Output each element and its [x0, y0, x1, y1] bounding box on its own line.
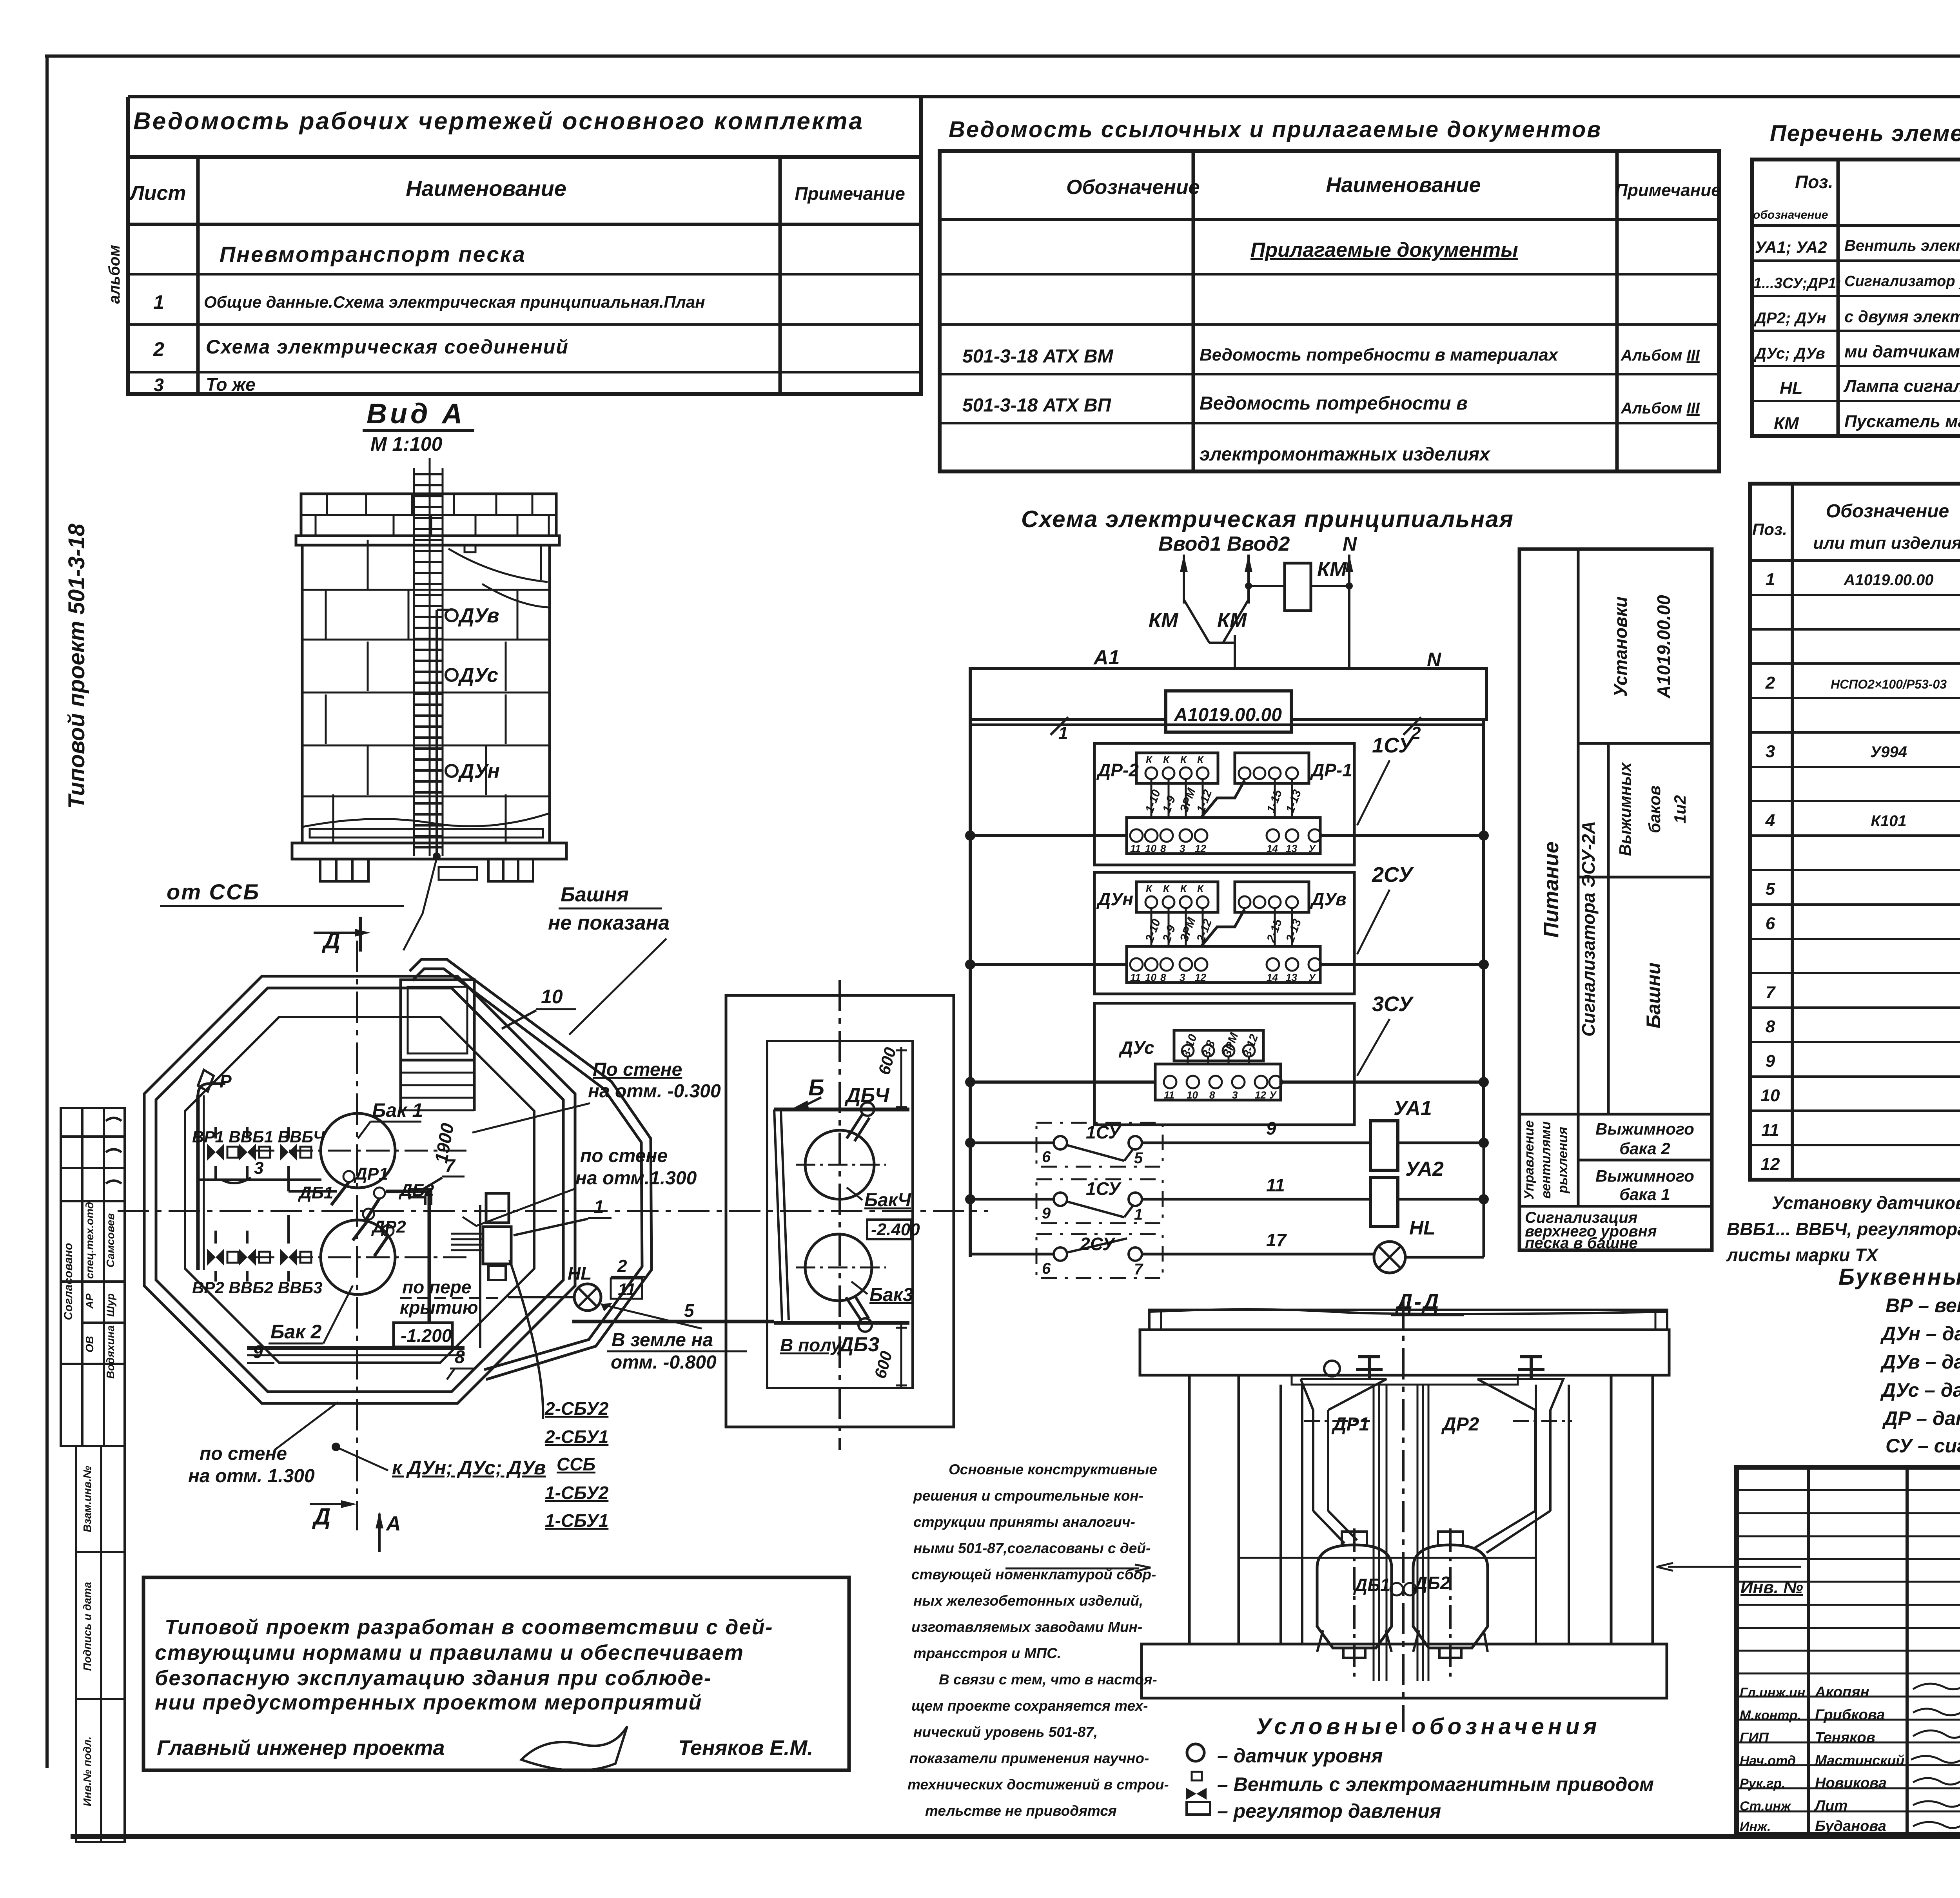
- svg-text:– Вентиль с электромагнитным: – Вентиль с электромагнитным приводом: [1217, 1773, 1654, 1795]
- svg-text:Установки: Установки: [1610, 596, 1631, 697]
- svg-text:ДУс: ДУс: [1118, 1037, 1154, 1058]
- svg-text:В полу: В полу: [780, 1335, 842, 1355]
- left construction notes paragraph: [907, 1461, 1169, 1819]
- Вид А title: [363, 398, 474, 455]
- svg-text:3: 3: [1232, 1089, 1238, 1101]
- svg-text:Башня: Башня: [561, 883, 629, 906]
- svg-text:2: 2: [1765, 673, 1775, 692]
- svg-text:11: 11: [1164, 1089, 1174, 1101]
- svg-text:с двумя электронными блоками с: с двумя электронными блоками с емкостны-: [1844, 307, 1960, 326]
- svg-text:ДБЧ: ДБЧ: [844, 1084, 890, 1107]
- svg-text:Альбом III: Альбом III: [1621, 347, 1700, 364]
- svg-text:5: 5: [684, 1300, 695, 1321]
- svg-text:10: 10: [1145, 972, 1156, 983]
- svg-text:12: 12: [1195, 972, 1206, 983]
- svg-text:ВР – вентиль рыхления: ВР – вентиль рыхления: [1886, 1294, 1960, 1316]
- svg-text:Установку датчиков ДУН; ДУв; Д: Установку датчиков ДУН; ДУв; ДУс см. лис…: [1772, 1193, 1960, 1213]
- wire number labels inside СУ blocks: [1143, 786, 1304, 1059]
- svg-text:Выжимных: Выжимных: [1616, 762, 1634, 856]
- svg-text:альбом: альбом: [106, 245, 123, 304]
- svg-text:3: 3: [1180, 843, 1185, 854]
- svg-text:Схема электрическая соединен: Схема электрическая соединений: [206, 336, 569, 358]
- svg-text:А1019.00.00: А1019.00.00: [1174, 705, 1282, 725]
- svg-text:по стене: по стене: [580, 1146, 668, 1166]
- svg-text:УА1; УА2: УА1; УА2: [1755, 238, 1827, 256]
- svg-text:Сигнализатора ЭСУ-2А: Сигнализатора ЭСУ-2А: [1578, 821, 1599, 1037]
- svg-text:ГИП: ГИП: [1740, 1729, 1769, 1746]
- svg-text:ных железобетонных изделий,: ных железобетонных изделий,: [913, 1593, 1143, 1609]
- main schematic enclosure: [970, 717, 1484, 1257]
- svg-text:2: 2: [617, 1256, 627, 1276]
- svg-text:НСПО2×100/Р53-03: НСПО2×100/Р53-03: [1831, 677, 1947, 691]
- svg-text:17: 17: [1266, 1230, 1287, 1250]
- svg-text:спец.тех.отд: спец.тех.отд: [83, 1202, 96, 1279]
- svg-text:тельстве не приводятся: тельстве не приводятся: [925, 1803, 1117, 1819]
- svg-text:вентилями: вентилями: [1539, 1121, 1553, 1198]
- svg-text:изготавляемых заводами Мин-: изготавляемых заводами Мин-: [911, 1619, 1142, 1635]
- svg-text:9: 9: [1766, 1051, 1775, 1071]
- svg-text:Мастинский: Мастинский: [1815, 1752, 1904, 1768]
- svg-text:– датчик уровня: – датчик уровня: [1217, 1745, 1383, 1767]
- svg-text:ДБ2: ДБ2: [398, 1181, 434, 1200]
- svg-text:СУ – сигнализатор уровня: СУ – сигнализатор уровня: [1886, 1435, 1960, 1457]
- svg-text:8: 8: [455, 1347, 465, 1367]
- svg-text:У: У: [1308, 843, 1316, 854]
- device А1019.00.00: [1166, 691, 1291, 732]
- svg-text:Лист: Лист: [129, 182, 186, 205]
- section Д-Д: [1391, 1289, 1464, 1315]
- svg-text:Бак3: Бак3: [869, 1285, 913, 1305]
- svg-text:ДР2: ДР2: [1441, 1414, 1479, 1435]
- svg-text:ствующими нормами и правилам: ствующими нормами и правилами и обеспечи…: [155, 1641, 744, 1664]
- svg-text:по пере: по пере: [402, 1277, 471, 1297]
- svg-text:ДУс; ДУв: ДУс; ДУв: [1754, 345, 1825, 362]
- svg-text:КМ: КМ: [1149, 609, 1179, 632]
- svg-text:ными 501-87,согласованы с дей-: ными 501-87,согласованы с дей-: [913, 1540, 1151, 1556]
- svg-text:1СУ: 1СУ: [1372, 734, 1414, 757]
- svg-text:1СУ: 1СУ: [1086, 1178, 1122, 1199]
- svg-text:12: 12: [1761, 1155, 1780, 1174]
- svg-text:Ст.инж: Ст.инж: [1740, 1799, 1791, 1814]
- svg-text:БакЧ: БакЧ: [864, 1190, 911, 1211]
- svg-text:Теняков Е.М.: Теняков Е.М.: [678, 1736, 813, 1760]
- switch contact 1СУ (6-5) and solenoid valve УА1, wire 9: [965, 1097, 1489, 1170]
- svg-text:У: У: [1308, 972, 1316, 983]
- svg-text:1: 1: [153, 291, 164, 313]
- svg-text:Поз.: Поз.: [1795, 172, 1833, 192]
- svg-text:10: 10: [1145, 843, 1156, 854]
- svg-text:АР: АР: [83, 1293, 96, 1309]
- svg-text:8: 8: [1160, 843, 1166, 854]
- к ДУн; ДУс; ДУв: [332, 1443, 340, 1451]
- svg-text:Выжимного: Выжимного: [1595, 1120, 1694, 1138]
- svg-text:Вентиль электропневматический: Вентиль электропневматический 5кч888р СВ…: [1844, 237, 1960, 254]
- svg-text:А1019.00.00: А1019.00.00: [1653, 595, 1674, 699]
- svg-text:ДУн: ДУн: [458, 760, 500, 783]
- svg-text:на отм. -0.300: на отм. -0.300: [588, 1081, 721, 1102]
- svg-text:бака 2: бака 2: [1619, 1139, 1670, 1158]
- svg-text:Ввод1 Ввод2: Ввод1 Ввод2: [1158, 533, 1290, 555]
- svg-text:1-СБУ1: 1-СБУ1: [545, 1510, 608, 1531]
- svg-text:Ведомость потребности в матери: Ведомость потребности в материалах: [1200, 345, 1559, 364]
- svg-text:технических достижений в строи: технических достижений в строи-: [907, 1777, 1169, 1793]
- svg-text:1: 1: [1766, 570, 1775, 589]
- svg-text:ВВБ1... ВВБЧ, регулятора давле: ВВБ1... ВВБЧ, регулятора давления Р, дат…: [1727, 1219, 1960, 1239]
- svg-text:ВР1 ВВБ1 ВВБЧ: ВР1 ВВБ1 ВВБЧ: [192, 1128, 325, 1146]
- svg-text:М 1:100: М 1:100: [370, 433, 443, 455]
- svg-text:струкции приняты аналогич-: струкции приняты аналогич-: [913, 1514, 1135, 1530]
- svg-text:Альбом III: Альбом III: [1621, 400, 1700, 417]
- svg-text:ми датчиками ДЕ-3П: ми датчиками ДЕ-3П: [1844, 342, 1960, 361]
- section mark Д (top): [314, 917, 370, 954]
- svg-text:ствующей номенклатурой сбор-: ствующей номенклатурой сбор-: [911, 1566, 1156, 1583]
- svg-text:или тип изделия: или тип изделия: [1813, 533, 1960, 553]
- svg-text:Лит: Лит: [1814, 1798, 1847, 1814]
- switch contact 1СУ (9-1) and solenoid valve УА2, wire 11: [965, 1158, 1489, 1227]
- svg-text:УА2: УА2: [1405, 1158, 1444, 1180]
- left margin vertical text: [62, 245, 123, 1320]
- svg-text:HL: HL: [1409, 1217, 1436, 1239]
- svg-text:2-СБУ2: 2-СБУ2: [544, 1398, 609, 1419]
- wire: input feeders: [1180, 555, 1353, 604]
- svg-text:ДР-1: ДР-1: [1310, 760, 1352, 780]
- svg-text:9: 9: [253, 1341, 263, 1362]
- svg-text:11: 11: [1130, 972, 1141, 983]
- svg-text:Д: Д: [321, 927, 340, 954]
- svg-text:Условные обозначения: Условные обозначения: [1256, 1714, 1601, 1739]
- svg-text:Ведомость ссылочных и прила: Ведомость ссылочных и прилагаемые докуме…: [949, 117, 1602, 142]
- svg-text:1и2: 1и2: [1671, 795, 1689, 823]
- svg-text:8: 8: [1209, 1089, 1215, 1101]
- list: Буквенные позиционные обозначения: [1838, 1264, 1960, 1457]
- svg-text:ДБ1: ДБ1: [298, 1183, 333, 1202]
- svg-text:ДР2; ДУн: ДР2; ДУн: [1754, 310, 1826, 327]
- svg-text:Сигнализатор уровня электронны: Сигнализатор уровня электронный типа ЭСУ…: [1844, 273, 1960, 290]
- svg-text:Ведомость рабочих чертежей: Ведомость рабочих чертежей основного ком…: [133, 108, 864, 135]
- svg-text:Управление: Управление: [1522, 1120, 1537, 1200]
- svg-text:баков: баков: [1645, 785, 1664, 833]
- svg-text:Поз.: Поз.: [1752, 520, 1787, 538]
- svg-text:ДР1: ДР1: [1331, 1414, 1369, 1435]
- svg-text:ДБ3: ДБ3: [837, 1333, 879, 1356]
- svg-text:Примечание: Примечание: [1615, 181, 1720, 200]
- svg-text:3: 3: [1766, 742, 1775, 761]
- svg-text:Буквенные позиционные обозна: Буквенные позиционные обозначения: [1838, 1264, 1960, 1290]
- svg-text:рыхления: рыхления: [1555, 1127, 1570, 1194]
- svg-text:на отм.1.300: на отм.1.300: [575, 1168, 697, 1189]
- svg-text:ССБ: ССБ: [557, 1454, 595, 1474]
- svg-text:Общие данные.Схема электрическ: Общие данные.Схема электрическая принцип…: [204, 293, 705, 311]
- svg-text:Бак 1: Бак 1: [372, 1099, 423, 1121]
- svg-text:1СУ: 1СУ: [1086, 1122, 1122, 1142]
- svg-text:501-3-18 АТХ ВП: 501-3-18 АТХ ВП: [962, 395, 1112, 416]
- svg-text:Нач.отд: Нач.отд: [1740, 1753, 1796, 1768]
- svg-text:13: 13: [1286, 843, 1297, 854]
- svg-text:Б: Б: [808, 1075, 824, 1100]
- svg-text:по стене: по стене: [200, 1443, 287, 1464]
- svg-text:КМ: КМ: [1317, 558, 1347, 581]
- svg-text:щем проекте сохраняется тех-: щем проекте сохраняется тех-: [911, 1698, 1148, 1714]
- svg-text:Пускатель магнитный типа ПМЕ-1: Пускатель магнитный типа ПМЕ-121: [1844, 412, 1960, 431]
- svg-text:3СУ: 3СУ: [1372, 992, 1414, 1016]
- bottom left note box: [143, 1577, 849, 1771]
- svg-text:– регулятор давления: – регулятор давления: [1217, 1800, 1441, 1822]
- svg-text:6: 6: [1042, 1260, 1051, 1277]
- svg-text:ДУс: ДУс: [458, 664, 498, 687]
- svg-text:2СУ: 2СУ: [1080, 1234, 1116, 1254]
- svg-text:К: К: [1146, 754, 1153, 765]
- svg-text:10: 10: [1761, 1086, 1780, 1105]
- svg-text:ДР-2: ДР-2: [1096, 760, 1139, 780]
- svg-text:11: 11: [1761, 1120, 1779, 1140]
- svg-text:В земле на: В земле на: [612, 1330, 713, 1351]
- svg-text:А1: А1: [1093, 646, 1120, 669]
- functional destination table: [1519, 549, 1712, 1252]
- svg-text:Новикова: Новикова: [1815, 1775, 1887, 1791]
- svg-text:Инж.: Инж.: [1740, 1819, 1771, 1834]
- left margin stamp table: [61, 1108, 125, 1842]
- svg-text:трансстроя и МПС.: трансстроя и МПС.: [913, 1645, 1061, 1661]
- svg-text:N: N: [1343, 533, 1357, 555]
- svg-text:нии предусмотренных проектом: нии предусмотренных проектом мероприятий: [155, 1691, 702, 1714]
- svg-text:Рук.гр.: Рук.гр.: [1740, 1776, 1786, 1791]
- svg-text:Основные конструктивные: Основные конструктивные: [949, 1461, 1157, 1477]
- svg-text:5: 5: [1134, 1149, 1143, 1167]
- plan labels: [184, 986, 747, 1552]
- svg-text:Гл.инж.ин: Гл.инж.ин: [1740, 1685, 1805, 1700]
- contactor KM main contacts: [1149, 555, 1285, 669]
- svg-text:крытию: крытию: [400, 1297, 478, 1318]
- svg-text:ДР1: ДР1: [353, 1164, 388, 1184]
- svg-text:12: 12: [1195, 843, 1206, 854]
- svg-text:2: 2: [153, 338, 164, 360]
- tower elevation Вид А: [292, 458, 566, 950]
- svg-text:Выжимного: Выжимного: [1595, 1167, 1694, 1185]
- table: Ведомость рабочих чертежей основного комплекта: [128, 97, 921, 395]
- svg-text:ДУв: ДУв: [458, 604, 499, 627]
- svg-text:-1.200: -1.200: [401, 1325, 452, 1346]
- svg-text:М.контр.: М.контр.: [1740, 1708, 1801, 1723]
- table: Ведомость ссылочных и прилагаемых документов: [940, 117, 1721, 471]
- svg-text:на отм. 1.300: на отм. 1.300: [188, 1466, 315, 1486]
- tank ДБ1: [1317, 1545, 1392, 1648]
- svg-text:12: 12: [1255, 1089, 1266, 1101]
- signal unit block 3СУ with ДУс: [965, 992, 1489, 1125]
- svg-text:ДУн: ДУн: [1096, 889, 1133, 909]
- svg-text:Водяхина: Водяхина: [104, 1325, 116, 1379]
- svg-text:Самсовев: Самсовев: [104, 1213, 116, 1268]
- svg-text:отм. -0.800: отм. -0.800: [611, 1352, 717, 1373]
- svg-text:ДУс – датчик уровня среднего: ДУс – датчик уровня среднего: [1880, 1379, 1960, 1401]
- svg-text:Схема электрическая принципи: Схема электрическая принципиальная: [1021, 506, 1514, 532]
- svg-text:3: 3: [154, 375, 164, 395]
- svg-text:8: 8: [1160, 972, 1166, 983]
- svg-text:10: 10: [1187, 1089, 1198, 1101]
- svg-text:Перечень элементов принципиаль: Перечень элементов принципиальной схемы: [1770, 121, 1960, 146]
- svg-text:Башни: Башни: [1642, 963, 1664, 1028]
- svg-text:1...3СУ;ДР1;: 1...3СУ;ДР1;: [1753, 275, 1841, 292]
- svg-text:ДР – датчик рыхления: ДР – датчик рыхления: [1882, 1407, 1960, 1429]
- signal unit block 2СУ with ДУн ДУв: [965, 863, 1489, 994]
- svg-text:А: А: [385, 1512, 401, 1535]
- svg-text:от ССБ: от ССБ: [167, 879, 260, 904]
- svg-text:4: 4: [1765, 811, 1775, 830]
- svg-text:10: 10: [541, 986, 563, 1008]
- svg-text:Буданова: Буданова: [1815, 1818, 1886, 1835]
- svg-text:Типовой проект 501-3-18: Типовой проект 501-3-18: [64, 523, 89, 809]
- svg-text:К: К: [1180, 754, 1187, 765]
- svg-text:1: 1: [594, 1196, 604, 1217]
- svg-text:2СУ: 2СУ: [1372, 863, 1414, 886]
- note: sensor installation reference: [1726, 1193, 1960, 1265]
- svg-text:Теняков: Теняков: [1815, 1729, 1875, 1746]
- svg-text:А1019.00.00: А1019.00.00: [1843, 571, 1933, 589]
- svg-text:1-СБУ2: 1-СБУ2: [545, 1483, 609, 1503]
- title block: [1737, 1467, 1960, 1834]
- svg-text:13: 13: [1286, 972, 1297, 983]
- svg-text:К: К: [1180, 883, 1187, 894]
- svg-text:ОВ: ОВ: [83, 1336, 96, 1352]
- svg-text:7: 7: [1134, 1261, 1143, 1278]
- svg-text:Главный инженер проекта: Главный инженер проекта: [157, 1736, 445, 1760]
- svg-text:501-3-18 АТХ ВМ: 501-3-18 АТХ ВМ: [962, 346, 1114, 367]
- svg-text:Прилагаемые документы: Прилагаемые документы: [1250, 239, 1518, 261]
- table: Перечень элементов принципиальной схемы: [1752, 121, 1960, 436]
- svg-text:Наименование: Наименование: [1326, 173, 1481, 197]
- svg-text:Вид А: Вид А: [367, 398, 465, 430]
- title block signature rows: [1740, 1683, 1960, 1835]
- svg-text:В связи с тем, что в настоя-: В связи с тем, что в настоя-: [939, 1671, 1157, 1688]
- svg-text:не показана: не показана: [548, 912, 670, 934]
- svg-text:Подпись и дата: Подпись и дата: [81, 1582, 93, 1671]
- svg-text:То же: То же: [206, 374, 256, 395]
- svg-text:9: 9: [1266, 1118, 1276, 1138]
- svg-text:6: 6: [1042, 1148, 1051, 1166]
- label: Башня не показана: [548, 883, 670, 1035]
- svg-text:ДУн – датчик уровня нижнего: ДУн – датчик уровня нижнего: [1880, 1323, 1960, 1345]
- svg-text:ДБ1: ДБ1: [1353, 1575, 1390, 1595]
- svg-text:14: 14: [1267, 972, 1278, 983]
- svg-text:ДР2: ДР2: [371, 1217, 406, 1236]
- svg-text:ВР2 ВВБ2 ВВБ3: ВР2 ВВБ2 ВВБ3: [192, 1278, 323, 1297]
- svg-text:показатели применения научно-: показатели применения научно-: [909, 1750, 1149, 1766]
- svg-text:листы марки ТХ: листы марки ТХ: [1726, 1245, 1879, 1265]
- svg-text:Шур: Шур: [104, 1293, 116, 1317]
- svg-text:6: 6: [1766, 914, 1775, 933]
- svg-text:У: У: [1269, 1089, 1277, 1101]
- svg-text:К: К: [1197, 754, 1204, 765]
- switch contact 2СУ (6-7) and signal lamp HL, wire 17: [970, 1143, 1484, 1278]
- svg-text:HL: HL: [568, 1263, 592, 1283]
- svg-text:2-СБУ1: 2-СБУ1: [544, 1427, 608, 1447]
- svg-text:7: 7: [445, 1155, 456, 1176]
- svg-text:5: 5: [1766, 879, 1775, 899]
- svg-text:3: 3: [254, 1158, 263, 1178]
- svg-text:К: К: [1163, 754, 1170, 765]
- svg-text:Ведомость потребности в: Ведомость потребности в: [1200, 393, 1468, 414]
- svg-text:11: 11: [618, 1280, 636, 1299]
- contactor KM coil: [1285, 558, 1353, 669]
- svg-text:Грибкова: Грибкова: [1815, 1707, 1885, 1723]
- svg-text:нический уровень 501-87,: нический уровень 501-87,: [913, 1724, 1098, 1740]
- svg-text:-2.400: -2.400: [871, 1220, 920, 1239]
- svg-text:8: 8: [1766, 1017, 1775, 1036]
- svg-text:Наименование: Наименование: [406, 176, 566, 201]
- svg-text:Бак 2: Бак 2: [270, 1321, 321, 1343]
- svg-text:к ДУн; ДУс; ДУв: к ДУн; ДУс; ДУв: [392, 1457, 546, 1479]
- svg-text:Типовой проект разработан в: Типовой проект разработан в соответствии…: [165, 1615, 773, 1639]
- svg-text:электромонтажных изделиях: электромонтажных изделиях: [1200, 444, 1491, 465]
- table: specification (right big): [1750, 484, 1960, 1180]
- svg-text:ДБ2: ДБ2: [1413, 1573, 1450, 1593]
- svg-text:14: 14: [1267, 843, 1278, 854]
- svg-text:песка в башне: песка в башне: [1525, 1235, 1638, 1252]
- enclosure Б with Бак3 and Бак4: [572, 980, 954, 1450]
- svg-text:ДУв – датчик уровня верхнего: ДУв – датчик уровня верхнего: [1880, 1351, 1960, 1373]
- svg-text:У994: У994: [1870, 743, 1907, 761]
- svg-text:Примечание: Примечание: [795, 183, 905, 204]
- svg-text:УА1: УА1: [1394, 1097, 1432, 1120]
- svg-text:Лампа сигнальная: Лампа сигнальная: [1843, 377, 1960, 396]
- svg-text:Д: Д: [312, 1503, 330, 1530]
- svg-text:HL: HL: [1780, 379, 1803, 398]
- svg-text:Р: Р: [220, 1071, 232, 1091]
- svg-text:7: 7: [1766, 983, 1776, 1002]
- svg-text:К: К: [1163, 883, 1170, 894]
- svg-text:Акопян: Акопян: [1815, 1684, 1869, 1700]
- svg-text:Питание: Питание: [1539, 841, 1563, 938]
- svg-text:КМ: КМ: [1217, 609, 1247, 632]
- svg-text:безопасную эксплуатацию здан: безопасную эксплуатацию здания при соблю…: [155, 1666, 712, 1690]
- node: от ССБ ground line: [160, 879, 404, 906]
- svg-text:решения и строительные кон-: решения и строительные кон-: [913, 1488, 1143, 1504]
- svg-text:Пневмотранспорт песка: Пневмотранспорт песка: [220, 242, 526, 266]
- bus A1 rectangle: [970, 646, 1486, 720]
- signal unit block 1СУ with ДР-2 ДР-1: [965, 734, 1489, 865]
- legend Условные обозначения: [1186, 1714, 1654, 1822]
- svg-text:1: 1: [1134, 1206, 1143, 1223]
- svg-text:Взам.инв.№: Взам.инв.№: [81, 1466, 93, 1532]
- svg-text:бака 1: бака 1: [1619, 1185, 1670, 1204]
- svg-text:К101: К101: [1871, 812, 1906, 830]
- svg-text:К: К: [1146, 883, 1153, 894]
- svg-text:Обозначение: Обозначение: [1066, 176, 1200, 199]
- svg-text:3: 3: [1180, 972, 1185, 983]
- svg-text:обозначение: обозначение: [1753, 208, 1828, 221]
- plan view octagonal building: [118, 941, 988, 1530]
- tank ДБ2: [1413, 1545, 1488, 1648]
- svg-text:11: 11: [1266, 1175, 1285, 1195]
- svg-text:Инв.№ подл.: Инв.№ подл.: [81, 1737, 93, 1806]
- svg-text:9: 9: [1042, 1205, 1051, 1222]
- svg-text:Инв. №: Инв. №: [1740, 1578, 1803, 1597]
- svg-text:КМ: КМ: [1774, 414, 1799, 433]
- svg-text:По стене: По стене: [593, 1059, 682, 1080]
- svg-text:ДУв: ДУв: [1310, 889, 1347, 909]
- svg-text:Обозначение: Обозначение: [1826, 501, 1949, 522]
- schematic title: [1021, 506, 1514, 555]
- svg-text:11: 11: [1130, 843, 1141, 854]
- svg-text:К: К: [1197, 883, 1204, 894]
